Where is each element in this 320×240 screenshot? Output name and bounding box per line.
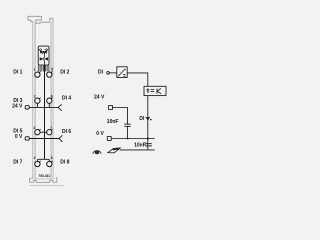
svg-text:DI 4: DI 4 bbox=[62, 95, 71, 101]
svg-text:6: 6 bbox=[51, 94, 53, 98]
svg-text:2: 2 bbox=[34, 94, 36, 98]
svg-text:8: 8 bbox=[51, 156, 53, 160]
svg-text:DI 6: DI 6 bbox=[62, 129, 71, 135]
svg-text:24 V: 24 V bbox=[12, 104, 23, 110]
svg-text:0 V: 0 V bbox=[96, 131, 104, 137]
svg-text:DI 8: DI 8 bbox=[60, 160, 69, 166]
svg-text:24 V: 24 V bbox=[94, 95, 105, 101]
svg-text:3: 3 bbox=[34, 126, 36, 130]
svg-text:10nF: 10nF bbox=[134, 143, 146, 149]
svg-text:DI 2: DI 2 bbox=[60, 70, 69, 76]
svg-text:7: 7 bbox=[50, 126, 52, 130]
svg-text:DI 1: DI 1 bbox=[13, 70, 22, 76]
svg-text:DI 7: DI 7 bbox=[13, 160, 22, 166]
svg-text:DI: DI bbox=[98, 70, 104, 76]
svg-text:10nF: 10nF bbox=[107, 119, 119, 125]
svg-text:1: 1 bbox=[34, 68, 36, 72]
svg-text:DI: DI bbox=[139, 116, 145, 122]
svg-text:750-431: 750-431 bbox=[38, 174, 50, 178]
svg-text:5: 5 bbox=[51, 67, 53, 71]
svg-text:4: 4 bbox=[34, 156, 36, 160]
svg-text:0 V: 0 V bbox=[15, 134, 23, 140]
